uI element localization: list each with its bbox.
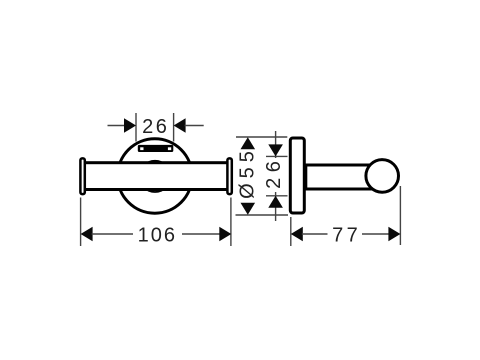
- svg-text:106: 106: [138, 224, 177, 246]
- arrow down to top tick: [268, 144, 283, 156]
- extension line top: [236, 136, 287, 138]
- extension line left of 106: [80, 198, 82, 247]
- extension line right of top 26: [173, 113, 175, 142]
- bar end cap right: [227, 158, 231, 194]
- rosette outer circle: [118, 139, 193, 214]
- dimension line right segment: [182, 233, 220, 235]
- svg-text:26: 26: [263, 156, 285, 189]
- screw hole left: [140, 147, 143, 150]
- hook arm: [306, 165, 376, 189]
- svg-text:77: 77: [332, 224, 361, 246]
- hook bar: [83, 163, 229, 190]
- arrow up to bottom tick: [268, 196, 283, 208]
- svg-text:Ø55: Ø55: [236, 146, 258, 199]
- screw hole right: [168, 147, 171, 150]
- arrow right (points left): [174, 118, 186, 133]
- dimension line left segment: [302, 233, 328, 235]
- hook ball: [366, 160, 399, 193]
- mounting plate bar: [138, 145, 174, 152]
- arrow down: [241, 203, 256, 215]
- extension line left of 77: [290, 217, 292, 246]
- bar end cap left: [80, 158, 84, 194]
- arrow up: [241, 137, 256, 149]
- leader line left: [108, 125, 126, 127]
- extension line bottom: [236, 214, 289, 216]
- extension tick bottom: [266, 195, 288, 197]
- rosette inner circle: [139, 161, 170, 192]
- wall plate: [290, 138, 304, 213]
- dimension line right segment: [362, 233, 389, 235]
- dimension line lower segment: [275, 192, 277, 221]
- extension line right of 106: [230, 198, 232, 247]
- arrow left (points left): [81, 227, 93, 242]
- arrow right (points right): [219, 227, 231, 242]
- arrow right (points right): [388, 227, 400, 242]
- extension tick top: [266, 155, 288, 157]
- dimension line upper segment: [275, 131, 277, 158]
- svg-text:26: 26: [142, 116, 169, 138]
- arrow left (points left): [291, 227, 303, 242]
- arrow left (points right): [124, 118, 136, 133]
- extension line left of top 26: [135, 113, 137, 142]
- leader line right: [185, 125, 204, 127]
- dimension line left segment: [92, 233, 133, 235]
- extension line right of 77: [399, 186, 401, 245]
